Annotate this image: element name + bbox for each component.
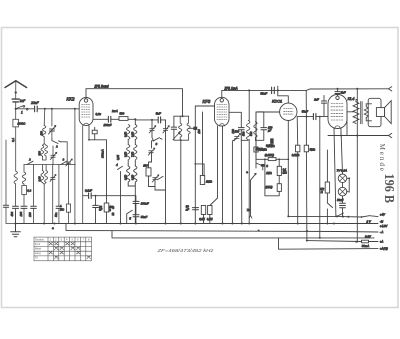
switch S5: [118, 166, 123, 223]
junction dot: [134, 118, 136, 120]
tube KL4 envelope: [328, 95, 347, 129]
wire lamps chain: [341, 136, 342, 203]
switch S9 volume: [251, 173, 257, 180]
svg-text:50nF: 50nF: [260, 91, 267, 95]
mixer capacitor C11 5nF: [158, 117, 160, 123]
wire C11: [135, 119, 165, 121]
T1 drop to bus: [180, 140, 182, 223]
svg-text:5nF: 5nF: [341, 91, 346, 95]
resistor R4 body: [119, 117, 128, 121]
trimmer CT4: [163, 126, 170, 133]
wire L4 ties: [42, 165, 46, 224]
wire CT7 drop: [232, 138, 236, 223]
output transformer T2 primary: [353, 102, 359, 124]
wire R12: [278, 159, 280, 183]
wire R5: [106, 196, 108, 224]
wire riser x357 lower: [356, 136, 358, 243]
svg-text:50mA: 50mA: [362, 244, 369, 248]
svg-text:Mittel: Mittel: [35, 246, 42, 250]
junction dot grid wire: [305, 116, 307, 118]
wire BF2 left drop: [240, 140, 243, 223]
svg-text:0,50: 0,50: [123, 131, 127, 137]
wire BF1 coil links: [128, 140, 135, 167]
junction dot: [356, 135, 358, 137]
wire C2 to bus: [15, 208, 17, 223]
tube KF3 top cap: [220, 99, 223, 102]
wire S4 to right riser: [61, 142, 68, 165]
svg-text:0,50: 0,50: [38, 176, 42, 182]
wire CT4: [165, 120, 167, 224]
tube KL4 top cap: [336, 96, 339, 99]
bandfilter BF1 coil f: [134, 166, 137, 184]
cathode wire to riser: [89, 139, 107, 141]
riser anode supply from bus B: [305, 90, 307, 116]
svg-text:Lang: Lang: [35, 251, 41, 255]
junction dot: [74, 108, 76, 110]
svg-text:KDC1: KDC1: [272, 99, 282, 103]
wire KF3 right: [229, 112, 241, 117]
svg-text:Kurz: Kurz: [35, 242, 41, 246]
svg-text:0,50: 0,50: [123, 174, 127, 180]
wire bus B tick: [277, 86, 279, 90]
switch S4: [52, 139, 61, 144]
speaker magnet: [376, 108, 384, 117]
ground bus rail: [16, 223, 379, 225]
fuse F1 body: [362, 240, 369, 243]
tube KL4 grids: [331, 104, 344, 121]
table row lines: [34, 242, 92, 256]
junction dot: [264, 158, 266, 160]
top right bus: [306, 89, 388, 91]
speaker frame: [368, 98, 381, 126]
junction dot: [277, 89, 279, 91]
wire CT8: [52, 146, 54, 165]
wire CT2 riser: [68, 164, 70, 204]
resistor R11 body: [254, 147, 258, 152]
svg-text:0,1u: 0,1u: [96, 112, 102, 116]
capacitor C20 50uF: [340, 203, 346, 208]
riser C grid leak: [319, 117, 321, 238]
T1 damping resistor: [189, 127, 194, 129]
svg-text:Mende: Mende: [378, 144, 386, 172]
coil pair L4: [41, 171, 48, 183]
svg-text:TA: TA: [35, 255, 38, 259]
tube KK2 envelope: [79, 98, 93, 126]
wire antenna lead-in: [15, 82, 17, 99]
dial lamp LP1: [338, 174, 347, 183]
junction dots lamps: [348, 177, 350, 179]
trimmer CT3: [50, 175, 56, 182]
svg-text:KF3: KF3: [203, 99, 211, 104]
svg-text:20nF: 20nF: [30, 101, 40, 105]
wire mixer bottom links: [149, 178, 166, 190]
resistor R14 body: [304, 145, 308, 152]
svg-text:5nF: 5nF: [156, 112, 161, 116]
svg-text:0,1: 0,1: [11, 137, 15, 142]
junction dot: [336, 215, 338, 217]
wire KL4 cathode leads: [334, 129, 341, 217]
earth ground symbol: [11, 224, 21, 237]
capacitor C19 5nF anode: [335, 92, 340, 94]
long riser branch 3: [74, 109, 76, 224]
tube KF3 bottom pinch: [220, 124, 225, 126]
svg-text:150: 150: [39, 131, 43, 136]
resistor R8 body: [201, 206, 205, 215]
wire C4 to bus: [33, 208, 35, 223]
junction dot: [356, 88, 358, 90]
capacitor C5 20nF: [35, 106, 38, 112]
junction dot: [44, 108, 46, 110]
antenna A1: [5, 81, 27, 88]
wire KL4 anode stub: [347, 112, 354, 136]
wire R6: [149, 162, 152, 182]
switch S7: [154, 138, 163, 141]
rail plus A: [307, 240, 378, 243]
trimmer CT5: [148, 148, 155, 155]
riser A anode supply: [305, 117, 308, 241]
svg-text:300mA: 300mA: [101, 149, 105, 158]
capacitor C18 2nF: [321, 101, 326, 103]
wire C20 to rail: [342, 208, 344, 217]
capacitor C13 plates: [238, 128, 244, 130]
tube KF3 envelope: [215, 97, 230, 126]
svg-text:MΩ: MΩ: [60, 207, 64, 211]
capacitor C10: [133, 215, 139, 217]
rail heater plus: [337, 216, 378, 217]
wire pot: [256, 163, 263, 170]
resistor R1 body: [13, 119, 19, 127]
capacitor C7 50uF shunt: [93, 205, 99, 207]
wire KDC1 bottom: [287, 121, 289, 217]
svg-text:0,50: 0,50: [131, 131, 135, 137]
svg-text:2MΩ: 2MΩ: [265, 172, 271, 175]
resistor R15 body: [325, 182, 329, 193]
trimmer CT2: [66, 159, 73, 166]
svg-text:ZF=468/473/482 kHz: ZF=468/473/482 kHz: [156, 248, 214, 253]
svg-text:500: 500: [242, 131, 246, 136]
resistor R3 body: [92, 130, 97, 134]
wire C1 to junction: [15, 102, 17, 109]
capacitor C21 riser: [58, 165, 60, 207]
wire KK2 top cap to IF bus: [86, 89, 183, 117]
svg-text:Tonabst.: Tonabst.: [35, 237, 45, 241]
tube KK2 grids: [82, 105, 91, 118]
coil pair L3: [41, 145, 48, 156]
grid return riser: [194, 106, 196, 224]
svg-text:100: 100: [198, 129, 201, 134]
svg-text:0,50: 0,50: [123, 151, 127, 157]
riser B detector load: [296, 117, 299, 224]
svg-text:500: 500: [38, 151, 42, 156]
svg-text:196 B: 196 B: [381, 174, 396, 204]
riser band cap: [33, 165, 35, 207]
tuning capacitor CV1: [49, 126, 56, 135]
svg-text:100nF: 100nF: [141, 202, 149, 206]
junction dot: [340, 135, 342, 137]
svg-text:2: 2: [28, 158, 31, 162]
resistor R9 body: [208, 206, 212, 215]
junction dot: [337, 88, 339, 90]
capacitor C12: [193, 208, 199, 210]
agc wire row: [256, 112, 288, 159]
connector fork bottom: [389, 133, 392, 137]
svg-text:(2MΩ): (2MΩ): [265, 186, 272, 189]
svg-text:(0,2MΩ): (0,2MΩ): [265, 154, 274, 157]
resistor R10 body: [271, 139, 274, 144]
wire R9 to bus: [209, 215, 211, 224]
svg-text:1MΩ: 1MΩ: [206, 180, 213, 184]
resistor R12 body: [277, 166, 281, 175]
coil L8: [43, 126, 46, 137]
bottom speaker wire: [328, 135, 389, 137]
rail plus A US: [279, 238, 379, 249]
anode wire KK2 right: [93, 119, 135, 124]
riser x242 with capacitor C13: [241, 117, 248, 140]
wire C22 to bus: [6, 207, 16, 223]
power switch S11: [335, 213, 344, 216]
table X marks row lang: [49, 251, 80, 254]
wire BF1 bottom: [128, 184, 135, 224]
rail minus A: [66, 224, 378, 233]
resistor R2 body: [22, 186, 27, 195]
wire C3 to bus: [23, 208, 25, 223]
resistor R16 body: [268, 158, 276, 161]
svg-text:- A: - A: [380, 230, 384, 234]
tube KK2 top cap: [84, 99, 87, 102]
resistor R6 body: [146, 168, 151, 176]
svg-text:ZF1 Band: ZF1 Band: [94, 85, 109, 89]
resistor R17 body: [66, 204, 70, 212]
wire R17 to bus: [68, 212, 70, 223]
connector fork top: [389, 87, 392, 91]
capacitor C3: [21, 206, 27, 208]
tube KK2 bottom pinch: [84, 123, 89, 125]
capacitor C2: [13, 206, 19, 208]
wire C21 to bus: [58, 208, 60, 223]
svg-text:100: 100: [143, 164, 148, 168]
svg-text:100: 100: [28, 212, 32, 217]
svg-text:1: 1: [21, 110, 23, 114]
rail grid bias: [112, 231, 374, 238]
svg-text:uF: uF: [99, 208, 102, 212]
switch S3: [61, 161, 67, 164]
svg-text:MΩ: MΩ: [283, 171, 287, 175]
switch S6: [127, 210, 133, 223]
trimmer CT6: [152, 175, 159, 182]
wire KDC1 top stub: [278, 90, 289, 103]
svg-text:2: 2: [55, 145, 58, 149]
svg-text:0,05: 0,05: [117, 155, 120, 160]
capacitor C4: [31, 206, 37, 208]
wire antenna drop: [15, 109, 17, 120]
switch S8: [158, 176, 164, 179]
svg-text:5MΩ: 5MΩ: [310, 148, 315, 151]
wire bandfilter2 feed: [248, 90, 250, 223]
svg-text:500: 500: [120, 112, 125, 116]
svg-text:ZF1 1mA: ZF1 1mA: [224, 86, 238, 90]
svg-text:50nF: 50nF: [141, 215, 148, 219]
wire L3 ties: [42, 125, 46, 160]
capacitor C15 50nF on bus B: [272, 87, 275, 93]
wire CT4a: [152, 120, 154, 141]
junction dot: [355, 241, 357, 243]
T1 bottom bar: [174, 139, 189, 141]
coil L2: [22, 165, 25, 186]
svg-text:500: 500: [235, 130, 240, 134]
wire T2 secondary links: [366, 104, 371, 121]
bandfilter BF1 coil a: [127, 125, 130, 140]
svg-text:2mA: 2mA: [111, 109, 118, 113]
svg-text:KK2: KK2: [67, 97, 76, 102]
svg-text:pF: pF: [267, 129, 271, 133]
grid branch to R7: [195, 164, 204, 176]
connector fork TA: [249, 214, 252, 219]
svg-text:0,2: 0,2: [27, 189, 31, 193]
capacitor C8 100nF: [108, 116, 110, 122]
capacitor C22: [3, 205, 8, 207]
T2 secondary: [364, 107, 368, 118]
svg-text:+A(Ul): +A(Ul): [380, 247, 388, 251]
T2 core: [361, 102, 362, 124]
wire KF3 leads: [210, 126, 223, 224]
tube KDC1 envelope: [280, 103, 297, 120]
tube KF3 grids: [217, 105, 227, 120]
lamp bypass wire: [347, 178, 349, 192]
wire KF3 grid left: [195, 105, 214, 107]
table X marks row TA: [54, 256, 90, 259]
trimmer CT8: [50, 152, 57, 159]
osc transformer T1 top bar: [174, 115, 189, 117]
switch S2: [27, 161, 33, 164]
wire C9 C10 riser: [135, 196, 137, 224]
mid horizontal wire: [83, 195, 136, 197]
switch S1: [17, 105, 29, 110]
switch S10: [327, 203, 332, 224]
wire antenna drop lower: [15, 127, 17, 224]
svg-text:0,50: 0,50: [131, 174, 135, 180]
svg-text:50nF: 50nF: [302, 109, 308, 113]
tube KDC1 electrodes: [284, 109, 294, 115]
switch S12: [362, 216, 370, 217]
svg-text:nF: nF: [186, 208, 189, 212]
svg-text:0,1uF: 0,1uF: [85, 189, 92, 193]
wire R8 to bus: [203, 215, 205, 224]
trimmer CT4a: [149, 126, 156, 133]
bandfilter BF2 coil b: [254, 122, 257, 141]
wire CT3 risers: [52, 165, 54, 224]
junction dot: [51, 108, 53, 110]
riser 300mA: [106, 140, 108, 196]
potentiometer P1: [261, 164, 266, 167]
table column lines: [48, 237, 86, 261]
wire CT5 down: [151, 153, 153, 162]
antenna arrowhead: [14, 92, 17, 95]
T1 parallel capacitor: [171, 127, 176, 129]
trimmer CT7: [234, 134, 241, 141]
svg-text:+4,8V: +4,8V: [380, 224, 389, 228]
wire L2 bottom: [23, 195, 25, 207]
svg-text:Ω: Ω: [109, 208, 111, 212]
svg-text:0,1MΩ: 0,1MΩ: [266, 145, 274, 148]
svg-text:100: 100: [19, 211, 23, 216]
capacitor C17 plates: [313, 114, 316, 120]
wire KK2 cathode lead: [88, 126, 90, 140]
wire BF2 right branch: [255, 112, 263, 141]
table X marks row mittel: [54, 247, 80, 250]
bandfilter BF1 coil e: [127, 166, 130, 184]
wire S7: [152, 141, 154, 148]
svg-text:500: 500: [249, 131, 253, 136]
wire KF3 top cap up: [222, 90, 306, 98]
band switch row wire: [24, 164, 76, 166]
coil L1: [14, 171, 17, 184]
bandfilter BF1 coil b: [134, 125, 137, 140]
bandfilter BF1 coil c: [127, 145, 130, 161]
table X marks row kurz: [49, 242, 75, 245]
bandfilter BF1 coil d: [134, 145, 137, 161]
wire tuning branch 1: [43, 109, 46, 125]
wire T2 primary top: [356, 89, 357, 136]
wire KDC1 bottom to rail joint: [288, 215, 337, 217]
svg-text:400: 400: [10, 211, 14, 216]
svg-text:KL4: KL4: [348, 97, 355, 101]
long riser branch 4: [82, 126, 84, 224]
resistor R18 body: [296, 145, 300, 152]
svg-text:50uF: 50uF: [337, 198, 344, 202]
svg-text:100nF: 100nF: [104, 123, 112, 127]
wire R13 links: [265, 159, 279, 196]
tube KL4 bottom pinch: [335, 126, 340, 129]
wire R15 riser: [326, 150, 328, 203]
svg-text:50n: 50n: [54, 212, 58, 217]
wire R3 stubs: [94, 127, 96, 140]
wire KDC1 left to audio: [256, 112, 280, 168]
resistor R7 body: [200, 176, 204, 185]
svg-text:7,50: 7,50: [131, 151, 135, 157]
wire C19: [337, 89, 339, 96]
riser x202: [202, 112, 204, 176]
capacitor C21: [56, 206, 62, 208]
svg-text:0,2MΩ: 0,2MΩ: [259, 148, 267, 152]
svg-text:100kΩ: 100kΩ: [17, 122, 25, 126]
junction dots on buses: [15, 223, 17, 225]
wire CV1 down: [51, 131, 53, 139]
capacitor C9: [133, 201, 139, 203]
resistor R13 body: [277, 184, 281, 192]
bandfilter BF2 coil a: [247, 121, 250, 141]
wire C18: [323, 96, 325, 117]
T1 secondary coil: [187, 116, 190, 140]
capacitor C1 1nF: [12, 99, 19, 102]
wire tuning branch 2: [51, 109, 53, 126]
svg-text:7V 0,2A: 7V 0,2A: [337, 169, 347, 173]
wave table frame: [34, 237, 92, 261]
left edge branch: [5, 140, 7, 205]
speaker cone: [385, 101, 392, 124]
T1 primary coil: [179, 116, 182, 140]
svg-text:+A: +A: [380, 240, 384, 244]
capacitor C6 0,1uF series: [89, 193, 92, 199]
T1 trimmer: [173, 132, 180, 140]
wire S9 drop: [250, 180, 252, 213]
T1 left branch: [173, 116, 175, 140]
junction dot: [287, 158, 289, 160]
resistor R5 body: [104, 203, 109, 212]
junction dot: [278, 158, 280, 160]
wire C7 branch: [95, 196, 97, 224]
capacitor C14 plates: [261, 128, 267, 130]
svg-text:2nF: 2nF: [313, 97, 319, 101]
